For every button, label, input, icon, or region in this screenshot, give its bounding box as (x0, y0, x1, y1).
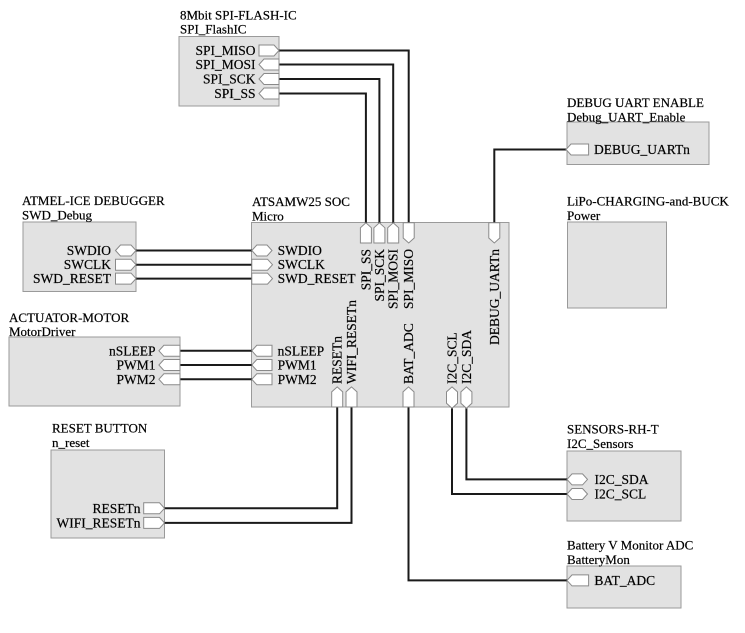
svg-text:DEBUG UART ENABLE: DEBUG UART ENABLE (567, 95, 704, 110)
svg-text:DEBUG_UARTn: DEBUG_UARTn (594, 142, 690, 157)
svg-text:ATMEL-ICE DEBUGGER: ATMEL-ICE DEBUGGER (22, 193, 165, 208)
svg-text:SPI_MISO: SPI_MISO (401, 249, 416, 309)
svg-text:SWCLK: SWCLK (64, 257, 112, 272)
svg-text:Power: Power (567, 208, 601, 223)
svg-text:SWD_RESET: SWD_RESET (278, 271, 357, 286)
svg-text:BAT_ADC: BAT_ADC (401, 323, 416, 384)
svg-text:Micro: Micro (252, 208, 284, 223)
svg-text:RESET BUTTON: RESET BUTTON (52, 421, 148, 436)
svg-text:PWM2: PWM2 (116, 372, 155, 387)
svg-text:I2C_Sensors: I2C_Sensors (567, 436, 633, 451)
svg-text:SWCLK: SWCLK (278, 257, 326, 272)
svg-text:8Mbit SPI-FLASH-IC: 8Mbit SPI-FLASH-IC (180, 7, 297, 22)
svg-text:SENSORS-RH-T: SENSORS-RH-T (567, 422, 659, 437)
svg-text:SPI_MISO: SPI_MISO (195, 43, 255, 58)
svg-text:ATSAMW25 SOC: ATSAMW25 SOC (252, 194, 350, 209)
svg-text:SWD_Debug: SWD_Debug (22, 207, 93, 222)
svg-text:ACTUATOR-MOTOR: ACTUATOR-MOTOR (9, 310, 129, 325)
svg-text:I2C_SCL: I2C_SCL (595, 487, 647, 502)
svg-text:SWDIO: SWDIO (278, 243, 322, 258)
svg-text:PWM2: PWM2 (278, 372, 317, 387)
svg-text:BatteryMon: BatteryMon (567, 552, 630, 567)
svg-text:Debug_UART_Enable: Debug_UART_Enable (567, 109, 686, 124)
svg-text:BAT_ADC: BAT_ADC (594, 573, 655, 588)
svg-text:RESETn: RESETn (330, 336, 345, 384)
svg-text:nSLEEP: nSLEEP (109, 343, 156, 358)
svg-text:SPI_SCK: SPI_SCK (203, 72, 256, 87)
svg-text:LiPo-CHARGING-and-BUCK: LiPo-CHARGING-and-BUCK (567, 194, 729, 209)
svg-text:SPI_SCK: SPI_SCK (372, 249, 387, 302)
svg-text:SPI_SS: SPI_SS (214, 86, 255, 101)
svg-text:SPI_MOSI: SPI_MOSI (386, 249, 401, 310)
svg-text:SPI_FlashIC: SPI_FlashIC (180, 22, 246, 37)
svg-text:I2C_SDA: I2C_SDA (459, 330, 474, 384)
svg-text:SPI_MOSI: SPI_MOSI (195, 57, 256, 72)
svg-text:SWD_RESET: SWD_RESET (33, 271, 112, 286)
svg-text:WIFI_RESETn: WIFI_RESETn (57, 515, 141, 530)
svg-text:I2C_SDA: I2C_SDA (595, 472, 649, 487)
svg-text:WIFI_RESETn: WIFI_RESETn (344, 300, 359, 384)
svg-text:Battery V Monitor ADC: Battery V Monitor ADC (567, 537, 693, 552)
svg-text:SWDIO: SWDIO (67, 243, 111, 258)
svg-text:nSLEEP: nSLEEP (278, 343, 325, 358)
svg-text:n_reset: n_reset (52, 435, 90, 450)
svg-text:PWM1: PWM1 (116, 358, 155, 373)
svg-text:I2C_SCL: I2C_SCL (444, 332, 459, 384)
svg-text:RESETn: RESETn (92, 501, 140, 516)
svg-text:MotorDriver: MotorDriver (9, 324, 76, 339)
svg-text:PWM1: PWM1 (278, 358, 317, 373)
svg-text:DEBUG_UARTn: DEBUG_UARTn (487, 249, 502, 345)
